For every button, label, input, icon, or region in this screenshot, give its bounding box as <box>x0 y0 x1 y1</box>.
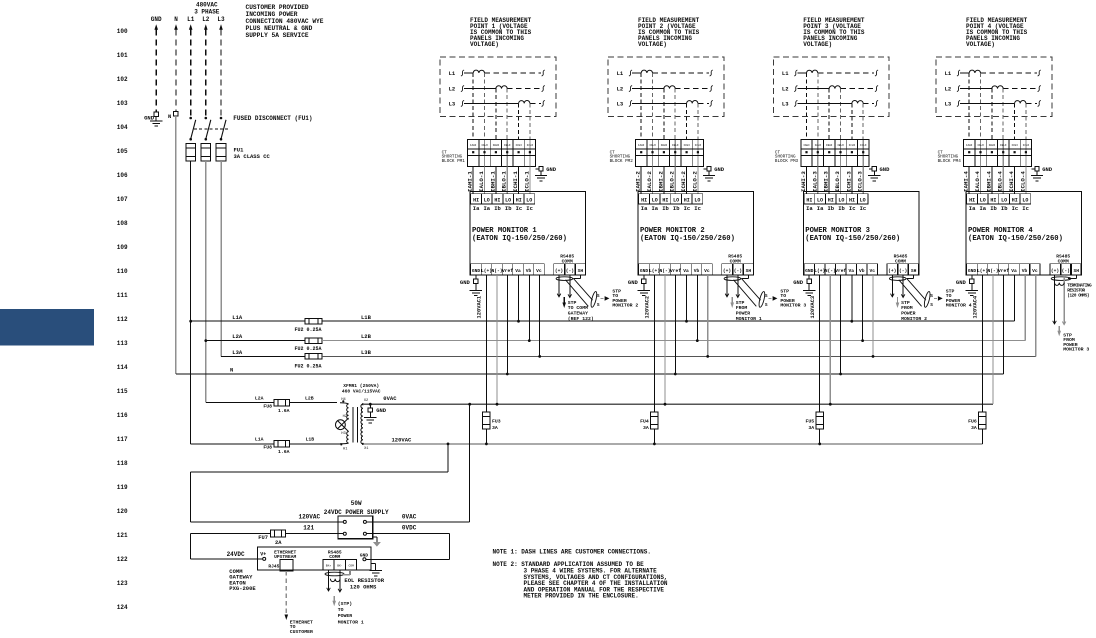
svg-text:120VAC: 120VAC <box>298 514 320 521</box>
svg-text:GND: GND <box>956 279 967 286</box>
svg-text:121: 121 <box>117 532 128 539</box>
svg-text:103: 103 <box>117 100 128 107</box>
svg-text:119: 119 <box>117 484 128 491</box>
svg-text:S: S <box>765 293 768 299</box>
svg-text:IBLO: IBLO <box>837 144 844 147</box>
svg-text:GND: GND <box>472 268 481 274</box>
svg-text:IALO: IALO <box>649 144 656 147</box>
svg-text:S: S <box>930 293 933 299</box>
svg-text:ICHI-2: ICHI-2 <box>680 171 687 192</box>
svg-text:L2: L2 <box>782 86 789 93</box>
svg-text:GND: GND <box>1042 166 1053 173</box>
svg-text:POWER: POWER <box>736 311 751 317</box>
svg-text:BLOCK PM4: BLOCK PM4 <box>938 159 962 164</box>
svg-text:L3A: L3A <box>232 349 243 356</box>
svg-text:BK+: BK+ <box>326 565 332 568</box>
svg-text:Ia: Ia <box>651 205 658 212</box>
svg-text:HI: HI <box>969 197 975 203</box>
svg-text:PLUS NEUTRAL & GND: PLUS NEUTRAL & GND <box>246 25 313 32</box>
svg-text:IAHI: IAHI <box>470 144 477 147</box>
svg-text:L1: L1 <box>449 70 456 77</box>
svg-text:ICLO: ICLO <box>695 144 702 147</box>
svg-text:(+): (+) <box>888 268 896 274</box>
svg-text:120: 120 <box>117 508 128 515</box>
svg-text:HI: HI <box>1012 197 1018 203</box>
svg-text:109: 109 <box>117 244 128 251</box>
svg-text:SUPPLY 5A SERVICE: SUPPLY 5A SERVICE <box>246 32 309 39</box>
svg-text:120VAC3: 120VAC3 <box>810 296 816 319</box>
svg-text:FROM: FROM <box>736 305 748 311</box>
svg-text:ICLO-3: ICLO-3 <box>857 171 864 192</box>
svg-text:L3: L3 <box>449 101 456 108</box>
svg-text:Vc: Vc <box>704 268 710 274</box>
svg-text:H3: H3 <box>341 432 345 436</box>
svg-text:CUSTOMER: CUSTOMER <box>290 629 313 633</box>
svg-text:3A: 3A <box>492 425 498 431</box>
svg-text:(REF 122): (REF 122) <box>568 316 594 322</box>
svg-text:112: 112 <box>117 316 128 323</box>
svg-text:Vb: Vb <box>526 268 532 274</box>
svg-text:N(-): N(-) <box>659 268 670 274</box>
svg-text:Ic: Ic <box>526 205 533 212</box>
svg-text:HI: HI <box>828 197 834 203</box>
svg-text:Ia: Ia <box>483 205 490 212</box>
svg-text:IALO-2: IALO-2 <box>646 171 653 192</box>
svg-text:Ic: Ic <box>694 205 701 212</box>
svg-text:BLOCK PM2: BLOCK PM2 <box>610 159 634 164</box>
svg-text:124: 124 <box>117 604 128 611</box>
svg-text:SH: SH <box>578 268 584 274</box>
svg-text:120VAC: 120VAC <box>392 437 413 444</box>
svg-text:X2: X2 <box>364 399 368 403</box>
svg-text:INCOMING POWER: INCOMING POWER <box>246 11 298 18</box>
svg-text:IBHI-4: IBHI-4 <box>985 171 992 192</box>
svg-text:X1: X1 <box>364 447 368 451</box>
svg-text:Vb: Vb <box>1022 268 1028 274</box>
svg-text:0VAC: 0VAC <box>383 395 397 402</box>
svg-text:CONNECTION 480VAC WYE: CONNECTION 480VAC WYE <box>246 18 324 25</box>
svg-text:(EATON IQ-150/250/260): (EATON IQ-150/250/260) <box>472 235 567 243</box>
svg-text:VOLTAGE): VOLTAGE) <box>803 41 832 48</box>
svg-text:N: N <box>174 16 178 23</box>
svg-text:120VAC4: 120VAC4 <box>973 295 979 318</box>
svg-text:Va: Va <box>849 268 855 274</box>
svg-text:S: S <box>597 302 600 308</box>
svg-text:BLOCK PM3: BLOCK PM3 <box>775 159 799 164</box>
svg-text:L3: L3 <box>617 101 624 108</box>
svg-text:Vref: Vref <box>670 268 681 274</box>
svg-text:120VAC1: 120VAC1 <box>477 296 483 319</box>
svg-text:101: 101 <box>117 52 128 59</box>
svg-text:FU7: FU7 <box>258 535 268 541</box>
svg-text:HI: HI <box>806 197 812 203</box>
svg-text:PXG-200E: PXG-200E <box>229 585 256 592</box>
svg-text:(-): (-) <box>566 268 574 274</box>
svg-text:MONITOR 1: MONITOR 1 <box>736 316 762 322</box>
svg-text:Ia: Ia <box>473 205 480 212</box>
svg-text:50W: 50W <box>351 500 362 507</box>
svg-text:(+): (+) <box>1051 268 1059 274</box>
svg-text:106: 106 <box>117 172 128 179</box>
svg-text:(EATON IQ-150/250/260): (EATON IQ-150/250/260) <box>640 235 735 243</box>
svg-text:BK-: BK- <box>337 565 343 568</box>
svg-text:L(+): L(+) <box>977 268 988 274</box>
svg-text:Va: Va <box>683 268 689 274</box>
svg-text:GND: GND <box>793 279 804 286</box>
svg-text:2A: 2A <box>275 540 282 546</box>
svg-text:GND: GND <box>640 268 649 274</box>
svg-text:GND: GND <box>805 268 814 274</box>
svg-text:ICLO: ICLO <box>1023 144 1030 147</box>
svg-text:L1: L1 <box>945 70 952 77</box>
svg-text:GATEWAY: GATEWAY <box>568 311 588 317</box>
svg-text:L1A: L1A <box>255 437 264 443</box>
svg-text:Ia: Ia <box>641 205 648 212</box>
svg-text:0VAC: 0VAC <box>402 514 417 521</box>
svg-text:LO: LO <box>980 197 986 203</box>
svg-text:STP: STP <box>568 300 577 306</box>
svg-text:IBHI-3: IBHI-3 <box>823 171 830 192</box>
svg-text:Ic: Ic <box>516 205 523 212</box>
svg-text:HI: HI <box>684 197 690 203</box>
svg-text:3A CLASS CC: 3A CLASS CC <box>234 153 271 160</box>
svg-text:Vref: Vref <box>998 268 1009 274</box>
svg-text:ICHI-3: ICHI-3 <box>845 171 852 192</box>
svg-text:L1B: L1B <box>306 436 315 442</box>
svg-text:L3: L3 <box>217 16 225 23</box>
svg-text:FU2 0.25A: FU2 0.25A <box>295 346 322 352</box>
svg-text:ICHI-1: ICHI-1 <box>512 171 519 192</box>
svg-text:Ia: Ia <box>817 205 824 212</box>
svg-text:N(-): N(-) <box>825 268 836 274</box>
svg-text:(STP): (STP) <box>338 601 353 607</box>
svg-text:IAHI-3: IAHI-3 <box>800 171 807 192</box>
svg-text:S: S <box>930 302 933 308</box>
svg-text:121: 121 <box>303 524 314 531</box>
svg-text:IBLO-4: IBLO-4 <box>997 171 1004 192</box>
svg-text:METER PROVIDED IN THE ENCLOSUR: METER PROVIDED IN THE ENCLOSURE. <box>524 593 639 600</box>
svg-text:MONITOR 3: MONITOR 3 <box>780 303 806 309</box>
svg-text:114: 114 <box>117 364 128 371</box>
svg-text:POWER: POWER <box>901 311 916 317</box>
svg-text:Ic: Ic <box>1012 205 1019 212</box>
svg-text:(EATON IQ-150/250/260): (EATON IQ-150/250/260) <box>968 235 1063 243</box>
svg-text:N(-): N(-) <box>987 268 998 274</box>
svg-text:IBHI: IBHI <box>826 144 833 147</box>
svg-text:Vb: Vb <box>859 268 865 274</box>
svg-text:ICLO: ICLO <box>860 144 867 147</box>
svg-text:3A: 3A <box>971 425 977 431</box>
svg-text:L2: L2 <box>449 86 456 93</box>
svg-text:L3: L3 <box>782 101 789 108</box>
svg-text:IALO-1: IALO-1 <box>478 171 485 192</box>
svg-text:Ib: Ib <box>494 205 501 212</box>
svg-text:Ia: Ia <box>806 205 813 212</box>
svg-text:VOLTAGE): VOLTAGE) <box>966 41 995 48</box>
svg-text:POWER: POWER <box>338 613 353 619</box>
svg-text:LO: LO <box>838 197 844 203</box>
svg-text:IBLO-1: IBLO-1 <box>501 171 508 192</box>
svg-text:Ib: Ib <box>827 205 834 212</box>
svg-text:111: 111 <box>117 292 128 299</box>
svg-text:L1A: L1A <box>232 314 243 321</box>
svg-text:ICHI: ICHI <box>849 144 856 147</box>
svg-text:V+: V+ <box>260 551 266 557</box>
svg-text:IBLO-3: IBLO-3 <box>834 171 841 192</box>
svg-text:IAHI-1: IAHI-1 <box>467 171 474 192</box>
svg-text:L(+): L(+) <box>649 268 660 274</box>
svg-text:108: 108 <box>117 220 128 227</box>
svg-text:GND: GND <box>714 166 725 173</box>
svg-text:Ia: Ia <box>969 205 976 212</box>
svg-text:STP: STP <box>901 300 910 306</box>
svg-text:(120 OHMS): (120 OHMS) <box>1067 293 1089 298</box>
svg-text:CUSTOMER PROVIDED: CUSTOMER PROVIDED <box>246 4 309 11</box>
svg-text:GND: GND <box>880 166 891 173</box>
svg-text:IALO: IALO <box>815 144 822 147</box>
svg-text:116: 116 <box>117 412 128 419</box>
svg-text:LO: LO <box>860 197 866 203</box>
svg-text:IBHI-1: IBHI-1 <box>489 171 496 192</box>
svg-text:HI: HI <box>494 197 500 203</box>
svg-text:ICHI: ICHI <box>1011 144 1018 147</box>
svg-text:FU5: FU5 <box>805 418 814 424</box>
svg-text:Vb: Vb <box>694 268 700 274</box>
svg-text:LO: LO <box>1022 197 1028 203</box>
svg-text:IALO-4: IALO-4 <box>974 171 981 192</box>
svg-text:SH: SH <box>911 268 917 274</box>
svg-text:GND: GND <box>151 16 162 23</box>
svg-text:MONITOR 1: MONITOR 1 <box>338 619 364 625</box>
svg-text:L2B: L2B <box>361 333 372 340</box>
svg-text:IBHI: IBHI <box>493 144 500 147</box>
svg-text:0VDC: 0VDC <box>402 524 417 531</box>
svg-text:L(+): L(+) <box>481 268 492 274</box>
svg-text:NOTE 1: DASH LINES ARE CUSTOME: NOTE 1: DASH LINES ARE CUSTOMER CONNECTI… <box>493 549 651 556</box>
svg-text:XFMR1 (250VA): XFMR1 (250VA) <box>343 383 379 389</box>
svg-text:VOLTAGE): VOLTAGE) <box>638 41 667 48</box>
svg-text:L2B: L2B <box>305 395 314 401</box>
svg-text:L3: L3 <box>945 101 952 108</box>
svg-text:3 PHASE: 3 PHASE <box>194 8 220 15</box>
svg-text:ICLO-2: ICLO-2 <box>691 171 698 192</box>
svg-text:BLOCK PM1: BLOCK PM1 <box>442 159 466 164</box>
svg-text:N: N <box>230 367 233 374</box>
svg-text:FU6: FU6 <box>968 418 977 424</box>
svg-text:120VAC2: 120VAC2 <box>645 296 651 319</box>
svg-text:SH: SH <box>1074 268 1080 274</box>
svg-text:Va: Va <box>515 268 521 274</box>
svg-text:ICHI-4: ICHI-4 <box>1008 171 1015 192</box>
svg-text:Ib: Ib <box>505 205 512 212</box>
svg-text:Vref: Vref <box>835 268 846 274</box>
svg-text:Ib: Ib <box>838 205 845 212</box>
svg-text:Va: Va <box>1011 268 1017 274</box>
svg-text:VOLTAGE): VOLTAGE) <box>470 41 499 48</box>
svg-text:HI: HI <box>990 197 996 203</box>
svg-text:MONITOR 2: MONITOR 2 <box>612 303 638 309</box>
svg-text:GND: GND <box>376 407 387 414</box>
svg-text:FU4: FU4 <box>640 418 649 424</box>
svg-text:ICLO-4: ICLO-4 <box>1019 171 1026 192</box>
svg-text:24VDC: 24VDC <box>227 551 245 558</box>
svg-text:Ic: Ic <box>849 205 856 212</box>
svg-text:N(-): N(-) <box>491 268 502 274</box>
svg-text:(+): (+) <box>723 268 731 274</box>
svg-text:IAHI-4: IAHI-4 <box>963 171 970 192</box>
svg-text:L2: L2 <box>202 16 210 23</box>
svg-text:110: 110 <box>117 268 128 275</box>
svg-text:107: 107 <box>117 196 128 203</box>
svg-text:IALO: IALO <box>481 144 488 147</box>
svg-text:STP: STP <box>736 300 745 306</box>
svg-text:HI: HI <box>641 197 647 203</box>
svg-text:TO: TO <box>338 607 344 613</box>
svg-text:Ib: Ib <box>1001 205 1008 212</box>
svg-text:Ib: Ib <box>662 205 669 212</box>
svg-text:105: 105 <box>117 148 128 155</box>
svg-text:H2: H2 <box>343 415 347 419</box>
svg-text:IBLO: IBLO <box>504 144 511 147</box>
svg-text:IALO: IALO <box>977 144 984 147</box>
svg-text:118: 118 <box>117 460 128 467</box>
svg-text:L1: L1 <box>617 70 624 77</box>
svg-text:GND: GND <box>546 166 557 173</box>
svg-text:HI: HI <box>662 197 668 203</box>
svg-text:LO: LO <box>652 197 658 203</box>
svg-text:FU3: FU3 <box>492 418 501 424</box>
svg-text:123: 123 <box>117 580 128 587</box>
svg-text:ICHI: ICHI <box>683 144 690 147</box>
svg-text:HI: HI <box>849 197 855 203</box>
svg-text:L2: L2 <box>945 86 952 93</box>
svg-text:FROM: FROM <box>901 305 913 311</box>
svg-text:Ib: Ib <box>673 205 680 212</box>
svg-text:FU8: FU8 <box>263 404 272 410</box>
svg-text:3A: 3A <box>808 425 814 431</box>
svg-text:S: S <box>597 293 600 299</box>
svg-text:(EATON IQ-150/250/260): (EATON IQ-150/250/260) <box>805 235 900 243</box>
svg-text:IBLO-2: IBLO-2 <box>669 171 676 192</box>
svg-text:115: 115 <box>117 388 128 395</box>
svg-text:IBLO: IBLO <box>1000 144 1007 147</box>
svg-text:(-): (-) <box>1062 268 1070 274</box>
svg-text:L3B: L3B <box>361 349 372 356</box>
svg-text:HI: HI <box>516 197 522 203</box>
svg-text:(-): (-) <box>734 268 742 274</box>
svg-text:Ia: Ia <box>979 205 986 212</box>
svg-text:FUSED DISCONNECT (FU1): FUSED DISCONNECT (FU1) <box>233 115 312 122</box>
svg-text:ICLO-1: ICLO-1 <box>523 171 530 192</box>
svg-text:L2A: L2A <box>255 396 264 402</box>
svg-text:(+): (+) <box>555 268 563 274</box>
svg-text:100: 100 <box>117 28 128 35</box>
svg-text:120 OHMS: 120 OHMS <box>350 584 377 591</box>
svg-text:LO: LO <box>526 197 532 203</box>
svg-text:(-): (-) <box>899 268 907 274</box>
svg-text:GND: GND <box>968 268 977 274</box>
svg-text:IBHI-2: IBHI-2 <box>657 171 664 192</box>
svg-text:FU2 0.25A: FU2 0.25A <box>295 327 322 333</box>
svg-text:IAHI: IAHI <box>638 144 645 147</box>
svg-text:104: 104 <box>117 124 128 131</box>
svg-text:Vc: Vc <box>869 268 875 274</box>
svg-text:Ib: Ib <box>990 205 997 212</box>
svg-text:ICLO: ICLO <box>527 144 534 147</box>
svg-text:TO COMM: TO COMM <box>568 305 588 311</box>
svg-text:113: 113 <box>117 340 128 347</box>
svg-text:Ic: Ic <box>684 205 691 212</box>
svg-text:HI: HI <box>473 197 479 203</box>
svg-text:MONITOR 3: MONITOR 3 <box>1063 347 1089 353</box>
svg-text:H4: H4 <box>341 398 345 402</box>
svg-text:LO: LO <box>1001 197 1007 203</box>
svg-text:GND: GND <box>460 279 471 286</box>
svg-text:Vc: Vc <box>1032 268 1038 274</box>
svg-text:L(+): L(+) <box>814 268 825 274</box>
svg-text:FU2 0.25A: FU2 0.25A <box>295 364 322 370</box>
svg-text:1.6A: 1.6A <box>278 408 290 414</box>
svg-text:LO: LO <box>484 197 490 203</box>
svg-text:LO: LO <box>673 197 679 203</box>
svg-text:Vc: Vc <box>536 268 542 274</box>
svg-text:24VDC POWER SUPPLY: 24VDC POWER SUPPLY <box>324 509 389 516</box>
svg-text:N: N <box>168 113 171 120</box>
svg-text:FU8: FU8 <box>263 445 272 451</box>
svg-text:1.6A: 1.6A <box>278 449 290 455</box>
svg-text:460 VAC/115VAC: 460 VAC/115VAC <box>342 388 381 394</box>
svg-text:Vref: Vref <box>502 268 513 274</box>
svg-text:GND: GND <box>628 279 639 286</box>
svg-text:L1: L1 <box>782 70 789 77</box>
svg-text:COM: COM <box>348 565 354 568</box>
svg-text:122: 122 <box>117 556 128 563</box>
svg-text:LO: LO <box>694 197 700 203</box>
svg-text:L1: L1 <box>187 16 195 23</box>
svg-text:IBHI: IBHI <box>661 144 668 147</box>
svg-text:MONITOR 2: MONITOR 2 <box>901 316 927 322</box>
svg-text:S: S <box>765 302 768 308</box>
svg-text:117: 117 <box>117 436 128 443</box>
svg-text:LO: LO <box>505 197 511 203</box>
svg-text:LO: LO <box>817 197 823 203</box>
svg-text:Ic: Ic <box>1022 205 1029 212</box>
svg-text:H1: H1 <box>343 447 347 451</box>
svg-text:IAHI: IAHI <box>966 144 973 147</box>
svg-text:102: 102 <box>117 76 128 83</box>
svg-text:IAHI-2: IAHI-2 <box>635 171 642 192</box>
svg-text:3A: 3A <box>643 425 649 431</box>
svg-text:L1B: L1B <box>361 314 372 321</box>
svg-text:IBHI: IBHI <box>989 144 996 147</box>
svg-text:L2A: L2A <box>232 333 243 340</box>
svg-text:IAHI: IAHI <box>803 144 810 147</box>
svg-text:SH: SH <box>746 268 752 274</box>
svg-text:L2: L2 <box>617 86 624 93</box>
svg-text:RJ45: RJ45 <box>268 564 279 570</box>
svg-text:ICHI: ICHI <box>515 144 522 147</box>
svg-text:MONITOR 4: MONITOR 4 <box>946 303 972 309</box>
svg-text:IALO-3: IALO-3 <box>811 171 818 192</box>
svg-text:IBLO: IBLO <box>672 144 679 147</box>
svg-text:Ic: Ic <box>860 205 867 212</box>
